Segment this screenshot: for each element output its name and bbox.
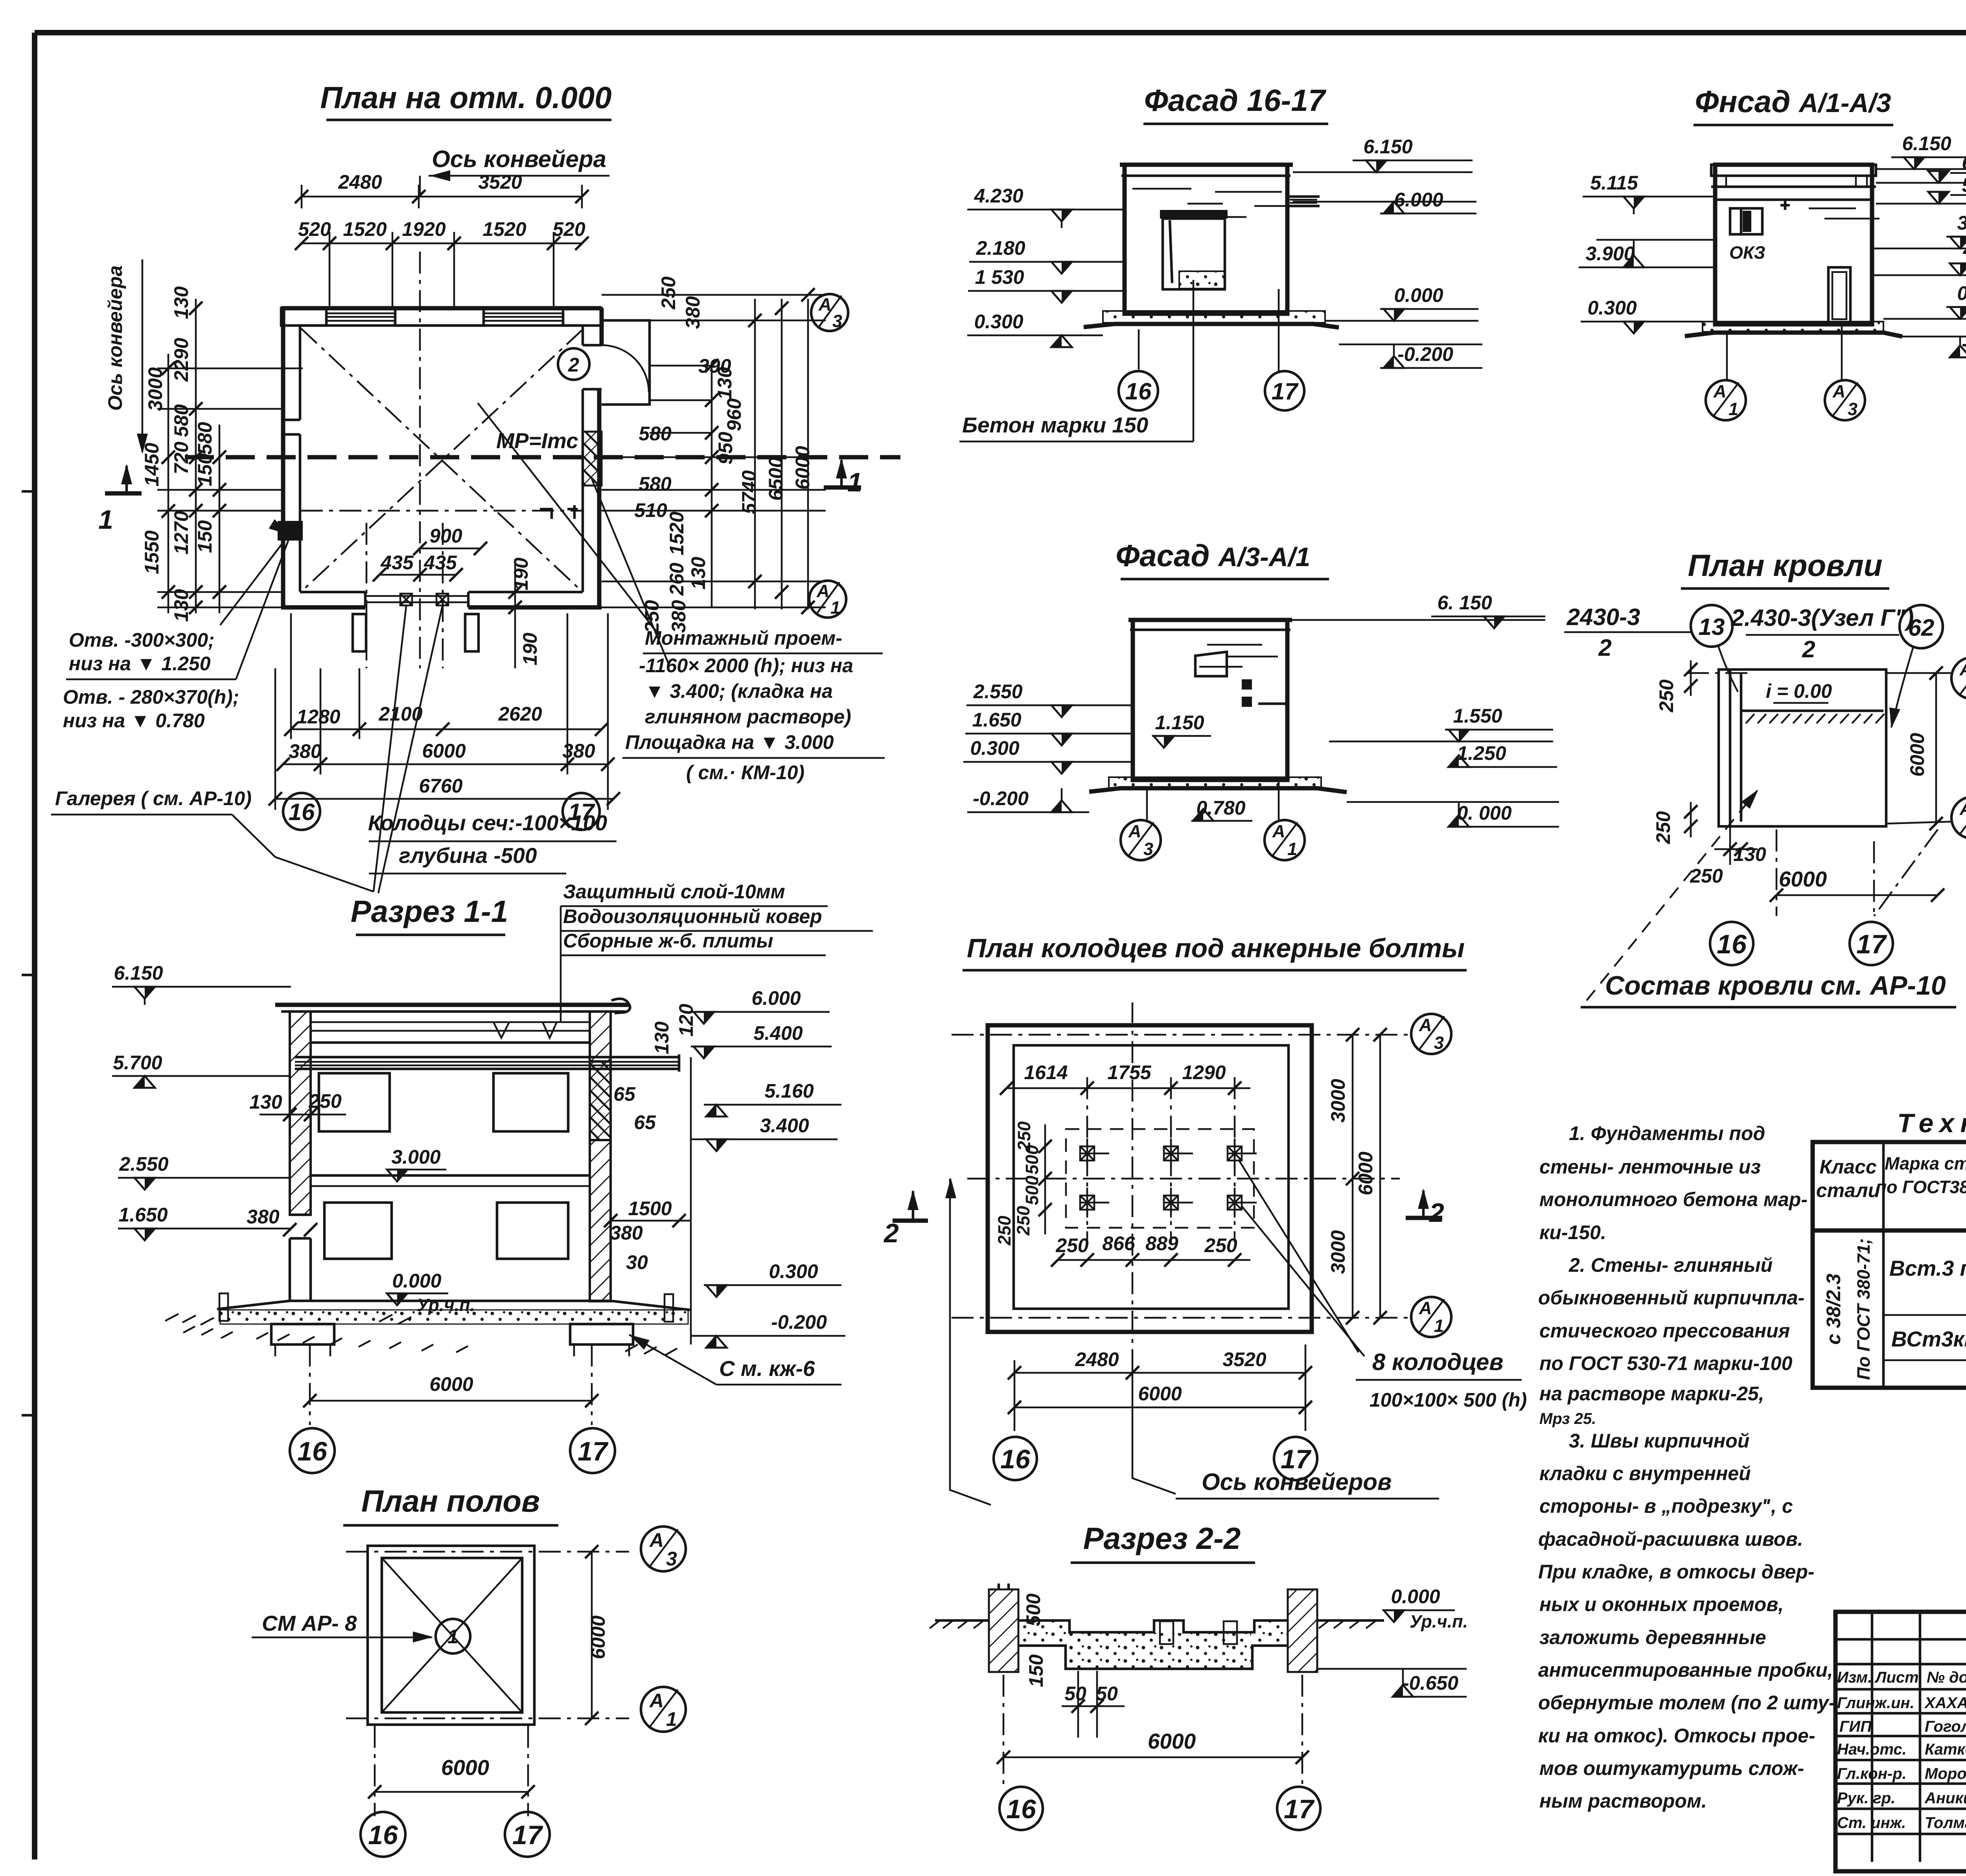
svg-text:3.400: 3.400 (760, 1115, 809, 1137)
svg-text:А: А (649, 1690, 664, 1712)
svg-text:1520: 1520 (343, 218, 387, 240)
svg-text:Марка стали: Марка стали (1885, 1153, 1966, 1173)
svg-text:13: 13 (1699, 614, 1725, 640)
svg-text:Галерея ( см. АР-10): Галерея ( см. АР-10) (55, 787, 252, 809)
svg-text:Гл.кон-р.: Гл.кон-р. (1837, 1765, 1907, 1782)
svg-text:65: 65 (634, 1111, 656, 1133)
svg-text:2: 2 (1802, 636, 1815, 662)
svg-text:3.400: 3.400 (1957, 212, 1966, 234)
svg-text:Ось конвейера: Ось конвейера (104, 265, 126, 411)
svg-text:кладки с внутренней: кладки с внутренней (1539, 1462, 1751, 1484)
svg-text:3. Швы кирпичной: 3. Швы кирпичной (1569, 1430, 1749, 1452)
svg-text:Класс: Класс (1819, 1156, 1876, 1178)
svg-text:6.150: 6.150 (114, 962, 163, 984)
svg-text:Ось конвейера: Ось конвейера (432, 146, 606, 172)
svg-text:6760: 6760 (419, 775, 462, 797)
svg-text:2.550: 2.550 (973, 681, 1022, 703)
svg-text:16: 16 (368, 1820, 398, 1850)
svg-text:6.000: 6.000 (1394, 189, 1443, 211)
svg-text:i = 0.00: i = 0.00 (1766, 680, 1832, 702)
svg-text:0.000: 0.000 (392, 1270, 441, 1292)
svg-text:16: 16 (1006, 1794, 1036, 1824)
svg-text:-0.200: -0.200 (973, 787, 1029, 809)
svg-text:А: А (1419, 1015, 1432, 1035)
svg-text:План кровли: План кровли (1688, 548, 1883, 583)
svg-text:65: 65 (613, 1083, 636, 1105)
upper windows (319, 1073, 390, 1131)
roof slab (275, 1003, 629, 1007)
svg-text:6000: 6000 (1138, 1383, 1182, 1405)
svg-text:5.400: 5.400 (753, 1022, 803, 1044)
svg-text:1755: 1755 (1107, 1061, 1151, 1083)
floor plan "Plan polov" (252, 1484, 686, 1857)
anchor squares bottom (400, 594, 412, 605)
svg-text:1 530: 1 530 (975, 266, 1024, 288)
svg-text:1520: 1520 (666, 511, 688, 555)
svg-text:1550: 1550 (141, 530, 163, 574)
svg-text:ВСт3кп2: ВСт3кп2 (1891, 1327, 1966, 1351)
svg-text:950: 950 (714, 432, 736, 465)
svg-text:1614: 1614 (1024, 1061, 1068, 1083)
os konveyerov leader (950, 1179, 991, 1505)
svg-text:При кладке, в откосы двер-: При кладке, в откосы двер- (1538, 1561, 1815, 1583)
circle node 2 (558, 348, 589, 380)
base (1703, 322, 1883, 332)
svg-text:0.780: 0.780 (1196, 797, 1245, 819)
svg-text:500: 500 (1022, 1175, 1042, 1205)
svg-text:1290: 1290 (1182, 1061, 1226, 1083)
spec table (1813, 1108, 1966, 1388)
svg-text:А: А (1272, 821, 1285, 841)
svg-text:6000: 6000 (422, 740, 466, 762)
svg-text:на растворе марки-25,: на растворе марки-25, (1539, 1383, 1764, 1405)
svg-text:6.150: 6.150 (1363, 136, 1412, 158)
svg-text:1: 1 (1729, 399, 1738, 419)
door arc (602, 345, 649, 392)
svg-text:2: 2 (883, 1218, 899, 1248)
svg-text:1280: 1280 (296, 706, 340, 728)
svg-text:Фасад 16-17: Фасад 16-17 (1144, 83, 1327, 118)
svg-text:План полов: План полов (361, 1484, 540, 1518)
lower windows (324, 1203, 392, 1259)
svg-text:3: 3 (666, 1548, 677, 1570)
top-left dims (1687, 672, 1750, 674)
svg-text:Морозова: Морозова (1925, 1765, 1966, 1782)
svg-text:2: 2 (568, 354, 579, 376)
left wall hatched (290, 1012, 311, 1215)
svg-text:Лист: Лист (1874, 1669, 1919, 1686)
svg-text:6. 150: 6. 150 (1437, 592, 1492, 614)
leaders to circles (1138, 329, 1140, 370)
svg-text:1.650: 1.650 (972, 709, 1021, 731)
svg-text:380: 380 (289, 740, 322, 762)
top wall with window bands (281, 306, 602, 311)
svg-text:960: 960 (723, 398, 745, 431)
svg-text:62: 62 (1908, 614, 1935, 641)
svg-text:1520: 1520 (482, 218, 526, 240)
svg-text:1270: 1270 (170, 511, 192, 554)
svg-text:250: 250 (308, 1090, 342, 1112)
svg-text:А: А (1713, 381, 1727, 401)
svg-text:заложить деревянные: заложить деревянные (1539, 1626, 1766, 1648)
svg-text:0.300: 0.300 (974, 311, 1023, 333)
svg-text:Рук. гр.: Рук. гр. (1837, 1790, 1895, 1807)
mid floor (311, 1174, 590, 1177)
svg-text:Разрез 2-2: Разрез 2-2 (1083, 1521, 1241, 1556)
bottom dim (1776, 829, 1778, 916)
svg-text:ОКЗ: ОКЗ (1729, 243, 1765, 263)
svg-text:1920: 1920 (402, 218, 445, 240)
svg-text:фасадной-расшивка швов.: фасадной-расшивка швов. (1538, 1528, 1803, 1550)
dashed anchor rectangle (1066, 1129, 1254, 1228)
svg-text:стороны- в „подрезкуʺ, с: стороны- в „подрезкуʺ, с (1539, 1495, 1793, 1517)
svg-text:монолитного бетона мар-: монолитного бетона мар- (1539, 1188, 1808, 1210)
svg-text:16: 16 (1717, 929, 1747, 959)
svg-text:Сборные ж-б. плиты: Сборные ж-б. плиты (563, 930, 773, 952)
svg-text:6.000: 6.000 (1962, 152, 1966, 174)
svg-text:1: 1 (1287, 839, 1297, 859)
svg-text:А: А (816, 581, 830, 601)
svg-text:250: 250 (1690, 865, 1723, 887)
roof plan (1564, 548, 1966, 1007)
left column hatched (989, 1589, 1018, 1672)
svg-text:6000: 6000 (1779, 867, 1827, 891)
svg-text:-0.200: -0.200 (771, 1311, 827, 1333)
svg-text:А: А (649, 1529, 664, 1551)
svg-text:Фасад А/3-А/1: Фасад А/3-А/1 (1116, 538, 1310, 573)
monorail level band 5.160 extending right (295, 1056, 679, 1059)
svg-text:30: 30 (626, 1251, 648, 1273)
svg-text:0. 000: 0. 000 (1457, 802, 1511, 824)
right pipe stub (1287, 193, 1320, 210)
left ground (935, 1619, 989, 1622)
svg-text:435: 435 (423, 552, 457, 574)
svg-text:5.115: 5.115 (1590, 172, 1638, 194)
svg-text:380: 380 (247, 1206, 280, 1228)
svg-text:5.160: 5.160 (764, 1080, 814, 1102)
svg-text:889: 889 (1145, 1232, 1178, 1254)
facade A/1-A/3 (1579, 84, 1966, 420)
bottom dim (1003, 1675, 1005, 1785)
svg-text:3.900: 3.900 (1585, 243, 1635, 265)
svg-text:Глинж.ин.: Глинж.ин. (1837, 1694, 1914, 1712)
interior diagonals dash-dot (301, 328, 583, 592)
right wall hatched (590, 1012, 611, 1061)
svg-text:6000: 6000 (429, 1373, 473, 1395)
svg-text:3: 3 (1143, 839, 1153, 859)
svg-text:250: 250 (1013, 1206, 1033, 1236)
svg-text:2620: 2620 (498, 703, 542, 725)
base (1103, 311, 1325, 323)
svg-text:2100: 2100 (378, 703, 422, 725)
svg-text:глиняном растворе): глиняном растворе) (645, 706, 851, 728)
svg-text:16: 16 (289, 799, 315, 825)
svg-text:-0.650: -0.650 (1403, 1672, 1458, 1694)
svg-text:2290: 2290 (170, 338, 192, 382)
svg-text:А: А (818, 294, 832, 315)
section mark 1 left (105, 491, 142, 496)
svg-text:5.400: 5.400 (1962, 174, 1966, 196)
svg-text:1: 1 (447, 1626, 458, 1648)
svg-text:Разрез 1-1: Разрез 1-1 (351, 894, 508, 929)
section 2 mark (1406, 1216, 1442, 1220)
hole block (Otv. 300x300) (278, 521, 303, 541)
svg-text:СМ АР- 8: СМ АР- 8 (262, 1611, 357, 1635)
svg-text:Вст.3 пс 6: Вст.3 пс 6 (1889, 1256, 1966, 1280)
plan view "Plan na otm. 0.000" (185, 80, 900, 893)
svg-text:Техническая спецификация м: Техническая спецификация металла (1897, 1108, 1966, 1138)
svg-text:250: 250 (1655, 679, 1677, 713)
svg-text:250: 250 (657, 276, 679, 310)
svg-text:130: 130 (687, 557, 709, 590)
plan dimensions bottom (269, 525, 620, 874)
window with hopper (1160, 210, 1228, 219)
svg-text:Отв. -300×300;: Отв. -300×300; (69, 629, 215, 651)
svg-text:16: 16 (1125, 378, 1152, 405)
svg-text:3000: 3000 (1327, 1079, 1349, 1122)
svg-text:100×100× 500 (h): 100×100× 500 (h) (1370, 1389, 1527, 1411)
foundation slab with bolt pockets (1018, 1620, 1288, 1632)
svg-text:мов оштукатурить слож-: мов оштукатурить слож- (1539, 1757, 1804, 1779)
svg-text:обыкновенный кирпичпла-: обыкновенный кирпичпла- (1538, 1287, 1804, 1309)
svg-text:глубина -500: глубина -500 (399, 843, 537, 868)
svg-text:3: 3 (1848, 399, 1857, 419)
plan dimensions right (602, 276, 848, 633)
svg-text:стали: стали (1816, 1179, 1880, 1201)
svg-text:ки-150.: ки-150. (1539, 1221, 1606, 1243)
section 1-1 (112, 881, 928, 1473)
svg-text:№ докум.: № докум. (1927, 1669, 1966, 1686)
vertical axes dash-dot (419, 252, 421, 668)
right ground (1317, 1619, 1384, 1622)
svg-text:ным раствором.: ным раствором. (1539, 1790, 1707, 1812)
svg-text:1.150: 1.150 (1155, 712, 1204, 734)
svg-text:580: 580 (639, 473, 672, 495)
svg-text:150: 150 (1025, 1654, 1047, 1687)
section mark 2 right (893, 1219, 928, 1223)
svg-text:6000: 6000 (441, 1755, 490, 1780)
svg-text:0.000: 0.000 (1394, 284, 1443, 306)
svg-text:2.180: 2.180 (976, 237, 1025, 259)
svg-text:Ур.ч.п.: Ур.ч.п. (1410, 1611, 1468, 1631)
sheet frame (35, 30, 1966, 35)
plan annotations (51, 539, 885, 857)
svg-text:2.550: 2.550 (119, 1153, 168, 1175)
svg-text:500: 500 (1022, 1145, 1042, 1174)
conveyor horizontal axis heavy dashed (185, 455, 900, 460)
sostav krovli (1587, 791, 1757, 1001)
svg-text:МР=Iтс: МР=Iтс (496, 429, 578, 453)
svg-text:6000: 6000 (792, 446, 814, 489)
svg-text:Монтажный проем-: Монтажный проем- (645, 627, 842, 649)
svg-text:антисептированные пробки,: антисептированные пробки, (1538, 1659, 1833, 1681)
svg-text:720: 720 (170, 441, 192, 475)
svg-text:17: 17 (1284, 1794, 1315, 1824)
anchor bolt wells plan (945, 933, 1527, 1505)
svg-text:Изм.: Изм. (1837, 1669, 1872, 1686)
svg-text:ХАХАЛИН: ХАХАЛИН (1924, 1694, 1966, 1712)
svg-text:250: 250 (994, 1216, 1014, 1245)
svg-text:по ГОСТ 530-71 марки-100: по ГОСТ 530-71 марки-100 (1539, 1352, 1793, 1374)
window OK3 (1730, 208, 1762, 234)
svg-text:190: 190 (519, 633, 541, 666)
small window (1195, 652, 1227, 676)
svg-text:С м. кж-6: С м. кж-6 (719, 1356, 815, 1381)
svg-text:Толмачева: Толмачева (1925, 1814, 1966, 1832)
svg-text:1: 1 (1434, 1316, 1444, 1336)
right wall with door + hatch (468, 308, 602, 607)
svg-text:3: 3 (832, 311, 842, 331)
title block (1835, 1612, 1966, 1876)
svg-text:500: 500 (1022, 1593, 1044, 1626)
gallery columns below (353, 614, 366, 651)
svg-text:Площадка на ▼ 3.000: Площадка на ▼ 3.000 (625, 731, 834, 753)
monorail mark interior (540, 505, 578, 519)
svg-text:150: 150 (194, 453, 216, 486)
svg-text:3.000: 3.000 (391, 1146, 440, 1168)
svg-text:5740: 5740 (738, 470, 760, 514)
svg-text:ГИП: ГИП (1839, 1718, 1872, 1735)
svg-text:900: 900 (429, 525, 462, 547)
notes text block (1538, 1122, 1835, 1812)
svg-text:17: 17 (1856, 929, 1887, 959)
svg-text:6.000: 6.000 (751, 987, 801, 1009)
svg-text:1: 1 (830, 598, 840, 618)
svg-text:2. Стены- глиняный: 2. Стены- глиняный (1568, 1254, 1773, 1276)
right dim (1935, 673, 1937, 824)
svg-text:16: 16 (297, 1436, 328, 1466)
right roof edge detail (611, 999, 630, 1013)
svg-text:150: 150 (194, 520, 216, 553)
svg-text:250: 250 (1055, 1234, 1089, 1256)
svg-text:120: 120 (675, 1004, 697, 1037)
svg-text:По ГОСТ 380-71;: По ГОСТ 380-71; (1854, 1238, 1874, 1380)
svg-text:130: 130 (651, 1021, 673, 1054)
svg-text:Мрз 25.: Мрз 25. (1539, 1410, 1596, 1427)
facade 16-17 (959, 83, 1482, 441)
svg-text:( см.· КМ-10): ( см.· КМ-10) (686, 761, 804, 784)
svg-text:1.650: 1.650 (118, 1204, 168, 1226)
gallery right stub (602, 320, 650, 405)
svg-text:260: 260 (666, 563, 688, 596)
svg-text:0.000: 0.000 (1391, 1585, 1440, 1607)
svg-text:6.150: 6.150 (1902, 132, 1951, 154)
svg-text:План на отм. 0.000: План на отм. 0.000 (320, 80, 611, 115)
axis circles A/3 A/1 (811, 294, 848, 331)
svg-text:8 колодцев: 8 колодцев (1372, 1349, 1503, 1375)
axes (952, 1034, 1412, 1036)
svg-text:Ст. инж.: Ст. инж. (1837, 1814, 1906, 1832)
svg-text:6500: 6500 (765, 457, 787, 500)
svg-text:520: 520 (298, 218, 331, 240)
svg-text:Бетон марки 150: Бетон марки 150 (962, 413, 1149, 437)
facade A/3-A/1 (963, 538, 1559, 860)
leaders to 8 kolodtsev (1239, 1160, 1359, 1352)
svg-text:866: 866 (1102, 1232, 1136, 1254)
svg-text:Катков: Катков (1925, 1741, 1966, 1758)
axis circles (1411, 1014, 1451, 1054)
svg-text:2.100: 2.100 (1962, 236, 1966, 258)
svg-text:ных и оконных проемов,: ных и оконных проемов, (1539, 1593, 1784, 1615)
svg-text:6000: 6000 (1906, 733, 1928, 776)
section mark 1 right (824, 486, 861, 490)
svg-text:Аникин: Аникин (1924, 1790, 1966, 1807)
svg-text:по ГОСТ380-71;: по ГОСТ380-71; (1876, 1177, 1966, 1197)
svg-text:380: 380 (682, 296, 704, 329)
svg-text:стены- ленточные из: стены- ленточные из (1539, 1156, 1761, 1178)
svg-text:Водоизоляционный ковер: Водоизоляционный ковер (563, 905, 822, 927)
svg-text:130: 130 (1733, 843, 1766, 865)
svg-text:17: 17 (512, 1820, 543, 1850)
svg-text:2.430-3(Узел Гʺ): 2.430-3(Узел Гʺ) (1731, 605, 1914, 631)
svg-text:250: 250 (1204, 1234, 1237, 1256)
svg-text:17: 17 (1272, 378, 1299, 405)
svg-text:-0.200: -0.200 (1397, 343, 1453, 365)
svg-text:1. Фундаменты под: 1. Фундаменты под (1569, 1122, 1765, 1144)
svg-text:Ось конвейеров: Ось конвейеров (1202, 1469, 1392, 1495)
bottom wall with opening (281, 605, 602, 610)
svg-text:Отв. - 280×370(h);: Отв. - 280×370(h); (63, 686, 239, 708)
svg-text:А: А (1959, 799, 1966, 819)
svg-text:низ на ▼ 1.250: низ на ▼ 1.250 (69, 653, 211, 675)
svg-text:130: 130 (170, 589, 192, 622)
svg-text:2480: 2480 (338, 171, 382, 193)
svg-text:6000: 6000 (1148, 1729, 1196, 1753)
svg-text:2480: 2480 (1075, 1348, 1119, 1370)
svg-text:Гоголев: Гоголев (1925, 1718, 1966, 1735)
svg-text:1450: 1450 (141, 443, 163, 486)
anchor squares (1079, 1138, 1257, 1218)
foundation / ground (217, 1301, 690, 1310)
svg-text:План колодцев под анкерные: План колодцев под анкерные болты (967, 933, 1465, 963)
svg-text:4.230: 4.230 (974, 185, 1023, 207)
svg-text:А: А (1419, 1298, 1432, 1318)
svg-text:50: 50 (1096, 1683, 1118, 1705)
svg-text:6000: 6000 (587, 1615, 609, 1659)
svg-text:0.300: 0.300 (769, 1260, 818, 1282)
svg-text:1: 1 (98, 505, 113, 535)
svg-text:1.550: 1.550 (1453, 705, 1502, 727)
svg-text:2: 2 (1428, 1198, 1444, 1228)
svg-text:1500: 1500 (628, 1197, 672, 1219)
svg-text:380: 380 (610, 1222, 643, 1244)
right column hatched (1288, 1589, 1317, 1672)
svg-text:0.300: 0.300 (970, 737, 1019, 759)
svg-text:250: 250 (1652, 811, 1674, 844)
svg-text:низ на ▼ 0.780: низ на ▼ 0.780 (63, 710, 205, 732)
svg-text:1: 1 (666, 1708, 677, 1730)
door (1828, 267, 1850, 322)
svg-text:ки на откос). Откосы прое-: ки на откос). Откосы прое- (1538, 1725, 1815, 1747)
svg-text:17: 17 (578, 1436, 609, 1466)
svg-text:520: 520 (552, 218, 585, 240)
svg-text:стического прессования: стического прессования (1539, 1320, 1790, 1342)
svg-text:▼ 3.400; (кладка на: ▼ 3.400; (кладка на (645, 680, 833, 702)
svg-text:-1160× 2000 (h); низ на: -1160× 2000 (h); низ на (639, 655, 853, 677)
svg-text:3520: 3520 (478, 171, 522, 193)
svg-text:Защитный слой-10мм: Защитный слой-10мм (563, 881, 785, 903)
svg-text:0.300: 0.300 (1587, 297, 1636, 319)
svg-text:2430-3: 2430-3 (1567, 604, 1640, 630)
svg-text:1: 1 (847, 467, 862, 497)
svg-text:Состав кровли см. АР-10: Состав кровли см. АР-10 (1605, 971, 1946, 1001)
left wall (281, 308, 285, 607)
svg-text:0.000: 0.000 (1957, 282, 1966, 304)
base (1109, 777, 1321, 788)
svg-text:2: 2 (1598, 635, 1611, 661)
leader diagonals (478, 403, 661, 637)
svg-text:3520: 3520 (1222, 1348, 1266, 1370)
